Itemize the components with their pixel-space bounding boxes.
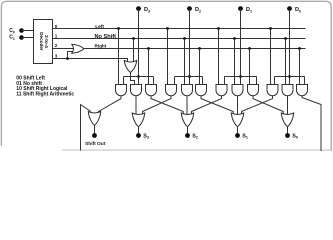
svg-text:S2: S2 <box>192 133 198 139</box>
decoder U1 box <box>34 20 53 64</box>
wire D3 bus drop right <box>153 77 155 85</box>
wire No Shift control line <box>53 38 306 40</box>
AND gate N-D1 <box>232 85 243 96</box>
svg-text:S0: S0 <box>292 133 298 139</box>
AND gate R-D3 <box>146 85 157 96</box>
svg-text:Shift Out: Shift Out <box>85 141 106 147</box>
wire AND L-D0 out <box>242 96 273 114</box>
junction dot Right tap col 3 <box>147 47 150 50</box>
wire D3 bus drop left <box>123 77 125 85</box>
svg-text:D3: D3 <box>144 7 150 13</box>
AND gate N-D2 <box>182 85 193 96</box>
junction dot D2 bus tap <box>188 75 191 78</box>
wire C1 to decoder <box>22 37 34 39</box>
wire NoShift drop col 1 <box>234 39 236 85</box>
wire D0 bus drop right <box>304 77 306 85</box>
wire Left drop col 2 <box>167 29 169 85</box>
junction dot Left tap col 0 <box>269 27 272 30</box>
junction dot NoShift tap col 0 <box>284 37 287 40</box>
wire Right control line <box>84 48 306 50</box>
junction dot NoShift tap D3 <box>132 37 135 40</box>
wire AND N-D2 out <box>186 96 188 115</box>
junction dot Right tap col 0 <box>298 47 301 50</box>
wire C0 to decoder <box>22 30 34 32</box>
wire NoShift drop col 2 <box>184 39 186 85</box>
wire S2 stub <box>187 127 189 136</box>
svg-text:S3: S3 <box>143 133 149 139</box>
junction dot Right tap col 2 <box>198 47 201 50</box>
wire S0 stub <box>287 127 289 136</box>
junction dot Left tap col 3 <box>117 27 120 30</box>
wire S1 stub <box>237 127 239 136</box>
wire Right drop col 2 <box>199 49 201 85</box>
OR gate output S1 <box>231 113 243 127</box>
wire D2 bus <box>175 76 203 78</box>
wire D0 bus <box>275 76 305 78</box>
wire D0 bus drop left <box>274 77 276 85</box>
junction dot D2 terminal <box>187 6 192 11</box>
wire D1 vertical <box>240 9 242 85</box>
svg-text:S1: S1 <box>242 133 248 139</box>
wire D1 bus drop right <box>256 77 258 85</box>
junction dot Left tap col 2 <box>166 27 169 30</box>
AND gate L-D3 <box>116 85 127 96</box>
wire AND L-D1 out <box>192 96 222 114</box>
wire D1 bus drop left <box>224 77 226 85</box>
wire D3 vertical <box>138 9 140 85</box>
wire decoder pin3 line to sign OR <box>53 59 128 63</box>
AND gate R-D1 <box>248 85 259 96</box>
junction dot C1 terminal <box>19 35 24 40</box>
wire left edge wire to ShiftOut OR <box>81 105 91 151</box>
svg-text:11 Shift Right Arithmetic: 11 Shift Right Arithmetic <box>16 92 74 98</box>
junction dot Right tap col 1 <box>248 47 251 50</box>
OR gate output Shift Out <box>88 112 100 126</box>
junction dot D3 terminal <box>136 6 141 11</box>
junction dot NoShift tap col 2 <box>183 37 186 40</box>
wire AND R-D3 out <box>151 96 183 114</box>
wire Left drop col 1 <box>218 29 220 85</box>
junction dot D0 terminal <box>287 6 292 11</box>
junction dot D3 bus tap <box>137 75 140 78</box>
wire D3 bus <box>124 76 154 78</box>
OR gate output S3 <box>132 113 144 127</box>
junction dot D1 terminal <box>238 6 243 11</box>
wire AND R-D2 out <box>201 96 233 114</box>
figure border bottom (faint) <box>62 149 330 151</box>
wire S3 stub <box>138 127 140 136</box>
junction dot S1 terminal <box>235 133 240 138</box>
wire AND R-D1 out <box>253 96 283 114</box>
OR gate output S2 <box>181 113 193 127</box>
figure rounded border <box>1 1 331 151</box>
wire AND L-D2 out <box>143 96 172 114</box>
wire Left control line <box>53 28 306 30</box>
AND gate N-D0 <box>282 85 293 96</box>
wire sign OR out to AND <box>131 72 135 84</box>
wire AND N-D3 out <box>135 96 137 115</box>
AND gate L-D1 <box>216 85 227 96</box>
svg-text:D0: D0 <box>295 7 301 13</box>
svg-text:No Shift: No Shift <box>95 34 117 40</box>
wire AND N-D1 out <box>237 96 239 115</box>
svg-text:D1: D1 <box>246 7 252 13</box>
wire D2 bus drop right <box>202 77 204 85</box>
wire NoShift drop col 0 <box>285 39 287 85</box>
AND gate R-D0 <box>297 85 308 96</box>
svg-text:Left: Left <box>95 24 104 30</box>
svg-text:D2: D2 <box>195 7 201 13</box>
svg-text:2: 2 <box>55 43 58 48</box>
wire Shift Out stub <box>94 125 96 135</box>
OR gate U3 sign extend <box>124 61 136 73</box>
AND gate N-D3 <box>131 85 142 96</box>
wire D2 bus drop left <box>174 77 176 85</box>
wire Left drop col 0 <box>270 29 272 85</box>
wire Right drop col 3 <box>148 49 150 85</box>
wire D2 vertical <box>189 9 191 85</box>
wire Right drop col 1 <box>249 49 251 85</box>
wire decoder pin2 to OR <box>53 48 74 50</box>
svg-text:3: 3 <box>55 53 58 58</box>
junction dot D0 bus tap <box>288 75 291 78</box>
AND gate L-D2 <box>166 85 177 96</box>
wire D1 bus <box>225 76 257 78</box>
svg-text:C1: C1 <box>9 35 15 41</box>
wire D0 vertical <box>289 9 291 85</box>
wire pin3 riser to OR <box>68 52 74 59</box>
wire AND R-D0 out to edge <box>302 96 321 151</box>
junction dot NoShift tap col 1 <box>233 37 236 40</box>
junction dot S0 terminal <box>285 133 290 138</box>
junction dot S2 terminal <box>185 133 190 138</box>
junction dot Left tap col 1 <box>217 27 220 30</box>
wire NoShift drop to sign OR <box>133 39 135 62</box>
OR gate output S0 <box>281 113 293 127</box>
wire AND N-D0 out <box>287 96 289 115</box>
junction dot S3 terminal <box>136 133 141 138</box>
AND gate L-D0 <box>267 85 278 96</box>
svg-text:1: 1 <box>55 34 58 39</box>
wire Left drop col 3 <box>118 29 120 85</box>
junction dot D1 bus tap <box>239 75 242 78</box>
svg-text:Right: Right <box>95 44 107 49</box>
junction dot Shift Out terminal <box>92 133 97 138</box>
OR gate U2 (Right) <box>72 44 84 53</box>
wire AND L-D3 out <box>99 96 122 114</box>
svg-text:C0: C0 <box>9 28 15 34</box>
junction dot pin3 tap <box>66 57 69 60</box>
junction dot C0 terminal <box>19 28 24 33</box>
AND gate R-D2 <box>196 85 207 96</box>
wire Right drop col 0 <box>299 49 301 85</box>
